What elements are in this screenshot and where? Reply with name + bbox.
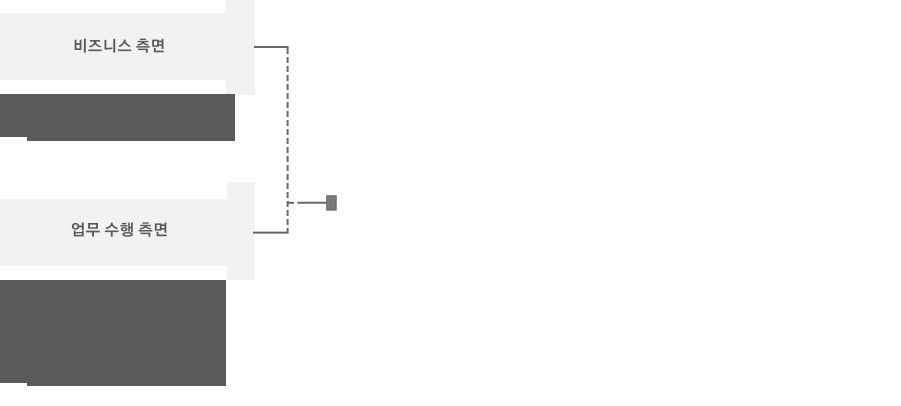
node: small gray square terminal: [327, 196, 337, 210]
dark content block 1 bottom-right extension: [27, 137, 235, 141]
dark content block 1 (upper): [0, 94, 235, 137]
text label: 업무 수행 측면: [72, 222, 167, 236]
label box: 비즈니스 측면 (business aspect) light rect: [0, 13, 227, 80]
column strip behind 업무 수행 box: [227, 182, 255, 280]
wire: short dash tick at junction: [288, 202, 294, 204]
dark content block 2 (lower): [0, 280, 226, 383]
wire: vertical dashed connector: [287, 48, 289, 232]
wire: top horizontal connector from 비즈니스 box: [254, 46, 289, 48]
text label: 비즈니스 측면: [75, 39, 164, 53]
column strip above/behind 비즈니스 box: [226, 0, 255, 95]
wire: bottom horizontal connector from 업무 수행 box: [253, 232, 289, 234]
dark content block 2 bottom-right extension: [27, 383, 226, 386]
wire: solid lead into node square: [297, 202, 326, 204]
label box: 업무 수행 측면 (task performance aspect) light rect: [0, 199, 227, 266]
